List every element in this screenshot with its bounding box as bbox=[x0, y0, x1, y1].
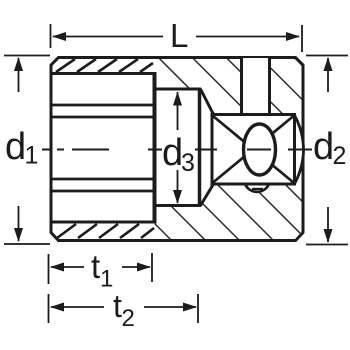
L extension ticks bbox=[50, 24, 52, 48]
t2 shafts bbox=[51, 306, 104, 308]
bottom band hatch strokes (/) bbox=[57, 224, 154, 238]
t1 shafts bbox=[51, 266, 84, 268]
L right arrow bbox=[286, 32, 300, 41]
hatched right mass bbox=[155, 59, 302, 239]
svg-text:d: d bbox=[5, 126, 26, 168]
svg-text:L: L bbox=[170, 17, 188, 54]
d2 arrow shafts bbox=[327, 58, 329, 92]
svg-text:1: 1 bbox=[100, 266, 113, 293]
L left arrow bbox=[52, 32, 66, 41]
cavity right wall bbox=[153, 72, 157, 224]
d3 up arrow bbox=[173, 92, 182, 106]
top band hatch strokes (/) bbox=[56, 59, 153, 72]
hex line 3 bbox=[51, 178, 155, 181]
neck top edge bbox=[155, 88, 202, 91]
d2 down arrow bbox=[324, 229, 333, 243]
t2 right arrow bbox=[183, 303, 197, 312]
bore bottom wall line bbox=[51, 221, 155, 224]
hex line 2 bbox=[51, 116, 155, 119]
white hole: neck + tapers + square-drive box bbox=[155, 91, 295, 205]
t1 right arrow bbox=[137, 263, 151, 272]
barrel arc right of box bbox=[295, 115, 304, 184]
arrowheads bbox=[14, 32, 333, 312]
bore top wall line bbox=[51, 72, 155, 75]
d1 extension lines bbox=[4, 55, 50, 57]
white column top right bbox=[242, 58, 270, 115]
socket body outline (chamfered) bbox=[51, 58, 303, 241]
white sliver right of box (arc) bbox=[295, 115, 304, 185]
d1 arrow shafts bbox=[18, 58, 20, 92]
svg-text:d: d bbox=[162, 132, 183, 174]
d2 extension lines bbox=[306, 55, 348, 57]
svg-text:2: 2 bbox=[122, 305, 135, 332]
svg-text:d: d bbox=[313, 126, 334, 168]
taper top bbox=[201, 89, 214, 115]
svg-text:3: 3 bbox=[181, 149, 195, 177]
t2 ticks bbox=[48, 294, 50, 323]
hex line 1 bbox=[51, 104, 155, 107]
bump dash bbox=[252, 188, 263, 190]
X diagonal 2 bbox=[213, 116, 294, 183]
neck right wall bbox=[198, 88, 202, 208]
X diagonal 1 bbox=[213, 116, 294, 183]
t1 left arrow bbox=[50, 263, 64, 272]
L dim line bbox=[53, 36, 163, 38]
neck bottom edge bbox=[155, 204, 202, 207]
d3 down arrow bbox=[173, 190, 182, 204]
d1 down arrow bbox=[14, 228, 23, 242]
d3 arrow shafts bbox=[177, 92, 179, 130]
ball bump arc bbox=[246, 185, 269, 192]
centerline dashes bbox=[42, 149, 312, 151]
t1 ticks bbox=[48, 254, 50, 284]
column verticals bbox=[240, 58, 243, 115]
svg-text:1: 1 bbox=[25, 142, 39, 170]
hex line 4 bbox=[51, 190, 155, 193]
t2 left arrow bbox=[50, 303, 64, 312]
square drive box bbox=[212, 115, 295, 185]
svg-text:t: t bbox=[91, 248, 100, 285]
ball bump below box bbox=[246, 185, 269, 192]
d2 up arrow bbox=[324, 57, 333, 71]
taper bottom bbox=[201, 184, 214, 206]
svg-text:2: 2 bbox=[333, 142, 347, 170]
ball ellipse bbox=[244, 124, 276, 175]
d1 up arrow bbox=[14, 57, 23, 71]
